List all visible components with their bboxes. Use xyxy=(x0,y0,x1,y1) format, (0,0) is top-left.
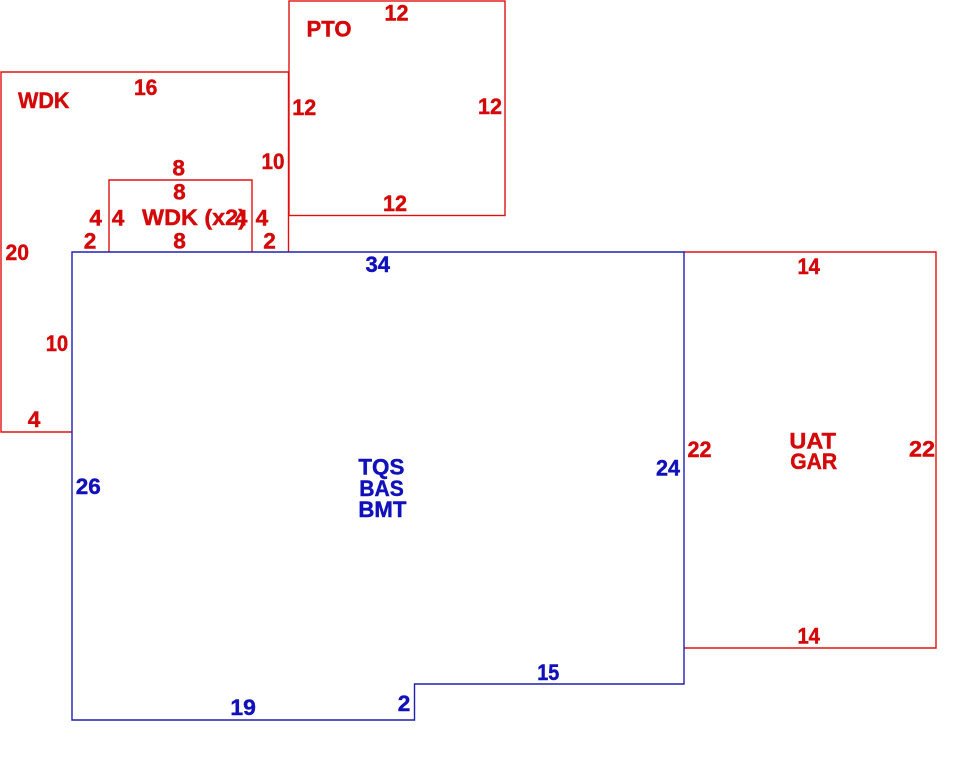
svg-text:4: 4 xyxy=(89,205,102,230)
svg-text:22: 22 xyxy=(688,437,712,462)
svg-text:34: 34 xyxy=(366,252,391,277)
svg-text:2: 2 xyxy=(84,229,97,254)
svg-text:16: 16 xyxy=(134,75,158,100)
PTO patio outline xyxy=(289,1,505,216)
svg-text:8: 8 xyxy=(172,156,185,181)
svg-text:14: 14 xyxy=(797,623,820,648)
svg-text:26: 26 xyxy=(76,474,101,499)
svg-text:12: 12 xyxy=(383,191,407,216)
WDK deck outline xyxy=(1,72,289,432)
svg-text:10: 10 xyxy=(262,149,285,174)
svg-text:2: 2 xyxy=(263,229,276,254)
svg-text:WDK (x2): WDK (x2) xyxy=(142,205,246,230)
svg-text:4: 4 xyxy=(256,205,269,230)
svg-text:4: 4 xyxy=(28,407,41,432)
svg-text:10: 10 xyxy=(46,331,69,356)
svg-text:12: 12 xyxy=(385,0,409,25)
svg-text:12: 12 xyxy=(478,94,502,119)
svg-text:WDK: WDK xyxy=(18,88,70,113)
svg-text:15: 15 xyxy=(537,660,559,685)
svg-text:4: 4 xyxy=(235,205,248,230)
svg-text:2: 2 xyxy=(398,691,411,716)
svg-text:12: 12 xyxy=(292,95,316,120)
svg-text:22: 22 xyxy=(909,436,935,461)
WDK (x2) deck outline xyxy=(109,180,252,252)
UAT GAR garage outline xyxy=(684,252,936,648)
svg-text:24: 24 xyxy=(656,455,680,480)
svg-text:GAR: GAR xyxy=(790,449,837,474)
main house outline TQS BAS BMT xyxy=(72,252,684,720)
svg-text:8: 8 xyxy=(173,180,186,205)
svg-text:19: 19 xyxy=(230,695,256,720)
svg-text:4: 4 xyxy=(112,205,125,230)
svg-text:PTO: PTO xyxy=(307,17,352,42)
svg-text:20: 20 xyxy=(6,240,30,265)
svg-text:BMT: BMT xyxy=(358,497,406,522)
svg-text:8: 8 xyxy=(173,229,186,254)
svg-text:14: 14 xyxy=(797,254,820,279)
